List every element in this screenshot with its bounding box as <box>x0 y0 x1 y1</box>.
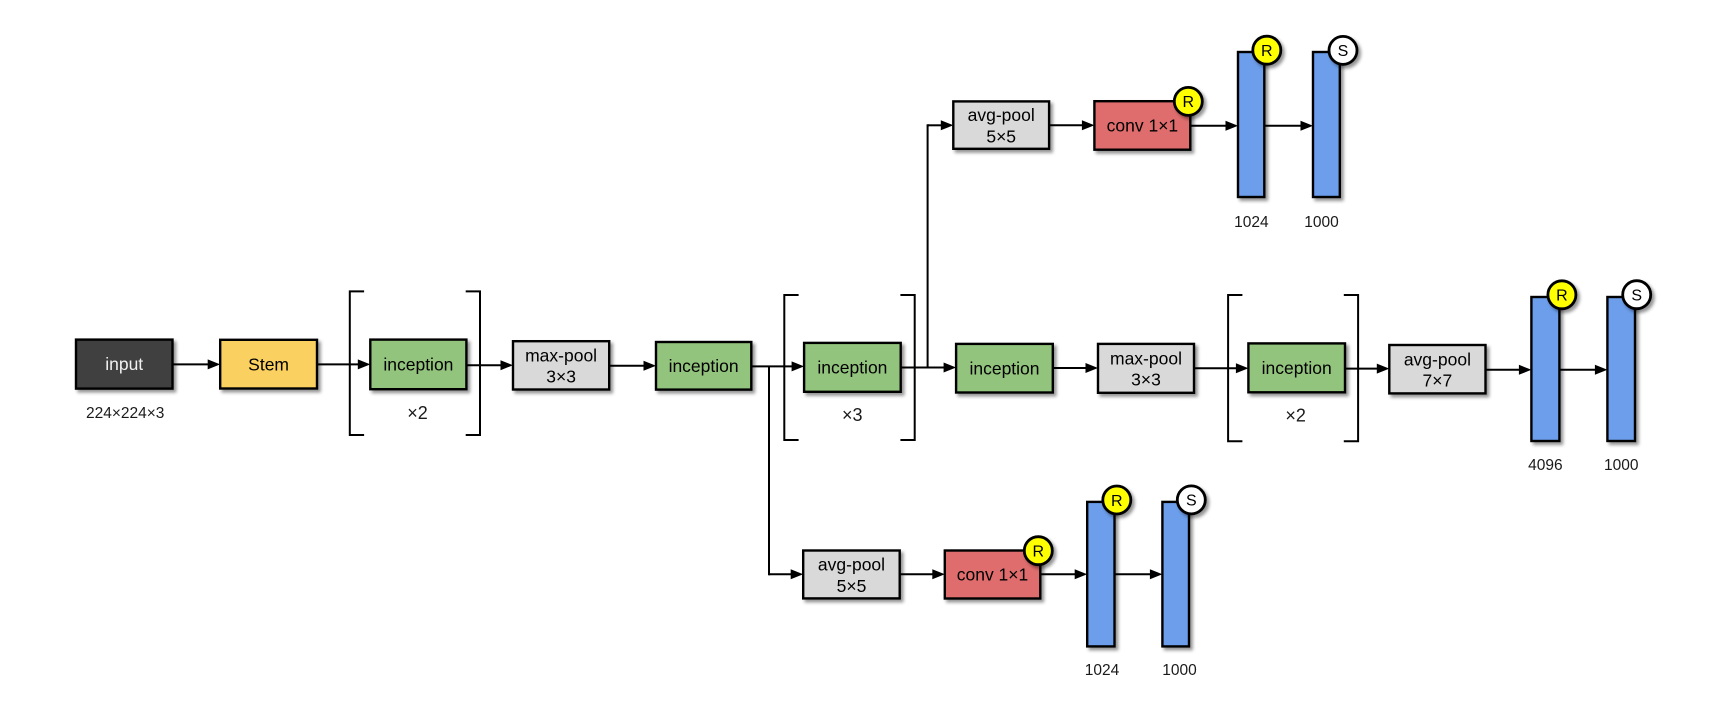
svg-text:3×3: 3×3 <box>1131 370 1161 390</box>
bar fc 1000 top <box>1313 52 1340 197</box>
wire inception5→avg-pool7 <box>1345 364 1389 374</box>
box max-pool 3x3 (2) <box>1098 344 1194 393</box>
svg-text:S: S <box>1631 288 1642 305</box>
svg-text:S: S <box>1186 493 1197 510</box>
svg-text:224×224×3: 224×224×3 <box>86 405 164 422</box>
wire inception1→max-pool1 <box>466 360 513 370</box>
bar fc 1024 bottom <box>1087 502 1114 647</box>
box inception 1 <box>370 340 466 390</box>
svg-text:3×3: 3×3 <box>546 367 576 387</box>
wire inception4→max-pool2 <box>1053 363 1098 373</box>
wire avg-pool7→fc4096 <box>1486 365 1532 375</box>
wire conv→fc1024 bottom <box>1040 569 1087 579</box>
wire corner bottom branch <box>768 573 770 575</box>
box avg-pool 7x7 <box>1389 345 1485 393</box>
svg-text:1000: 1000 <box>1304 214 1339 231</box>
wire max-pool1→inception2 <box>609 361 656 371</box>
wire inception3→inception4 <box>901 363 956 373</box>
svg-text:×3: ×3 <box>842 405 863 425</box>
svg-text:R: R <box>1183 94 1195 111</box>
wire conv→fc1024 top <box>1190 121 1238 131</box>
wire riser to top branch <box>927 125 929 367</box>
box avg-pool 5x5 top <box>953 101 1049 148</box>
svg-text:conv 1×1: conv 1×1 <box>957 565 1029 585</box>
svg-text:inception: inception <box>817 357 887 377</box>
bar fc 1000 main <box>1607 297 1635 441</box>
wire Stem→inception1 <box>317 359 370 369</box>
svg-text:max-pool: max-pool <box>525 345 597 365</box>
svg-text:4096: 4096 <box>1528 457 1562 474</box>
wire input→Stem <box>173 359 221 369</box>
svg-text:avg-pool: avg-pool <box>1404 349 1471 369</box>
svg-text:R: R <box>1111 493 1123 510</box>
Softmax badge fc1000 bottom <box>1177 486 1205 514</box>
svg-text:R: R <box>1556 288 1568 305</box>
wire inception2→inception3 <box>751 361 804 371</box>
ReLU badge conv top <box>1174 87 1202 115</box>
svg-text:1024: 1024 <box>1085 662 1120 679</box>
Softmax badge fc1000 top <box>1329 36 1357 64</box>
svg-text:1000: 1000 <box>1604 457 1639 474</box>
svg-text:1024: 1024 <box>1234 214 1269 231</box>
wire fc1024→fc1000 bottom <box>1115 569 1163 579</box>
wire fc4096→fc1000 <box>1559 365 1607 375</box>
svg-text:inception: inception <box>1262 358 1332 378</box>
bar fc 4096 main <box>1531 297 1559 441</box>
svg-text:S: S <box>1338 43 1349 60</box>
svg-text:conv 1×1: conv 1×1 <box>1107 116 1179 136</box>
box input <box>76 340 173 389</box>
box inception 5 <box>1248 343 1345 392</box>
svg-text:inception: inception <box>383 355 453 375</box>
svg-text:1000: 1000 <box>1162 662 1197 679</box>
svg-text:5×5: 5×5 <box>986 126 1016 146</box>
box inception 2 <box>656 342 751 390</box>
box max-pool 3x3 (1) <box>513 341 609 389</box>
wire avg-pool5→conv top <box>1049 120 1094 130</box>
box inception 4 <box>956 344 1053 393</box>
ReLU badge fc4096 main <box>1548 281 1576 309</box>
ReLU badge fc1024 top <box>1253 36 1281 64</box>
ReLU badge conv bottom <box>1024 537 1052 565</box>
wire branch-bottom→avg-pool5 bottom <box>769 569 803 579</box>
svg-text:avg-pool: avg-pool <box>818 555 885 575</box>
svg-text:inception: inception <box>669 356 739 376</box>
svg-text:×2: ×2 <box>1285 405 1306 425</box>
box inception 3 <box>804 343 901 392</box>
bracket ×2 group 1 <box>350 291 480 435</box>
svg-text:5×5: 5×5 <box>837 576 867 596</box>
ReLU badge fc1024 bottom <box>1103 486 1131 514</box>
svg-text:input: input <box>105 354 143 374</box>
box conv 1x1 bottom <box>945 551 1041 599</box>
svg-text:Stem: Stem <box>248 354 289 374</box>
svg-text:R: R <box>1033 544 1045 561</box>
wire max-pool2→inception5 <box>1194 363 1248 373</box>
svg-text:×2: ×2 <box>407 403 428 423</box>
svg-text:max-pool: max-pool <box>1110 348 1182 368</box>
bracket ×3 group 2 <box>784 295 914 440</box>
box avg-pool 5x5 bottom <box>803 551 900 599</box>
wire riser to bottom branch <box>768 366 770 574</box>
Softmax badge fc1000 main <box>1623 281 1651 309</box>
bracket ×2 group 3 <box>1228 295 1358 441</box>
bar fc 1000 bottom <box>1162 502 1189 647</box>
wire fc1024→fc1000 top <box>1264 121 1313 131</box>
box Stem <box>220 340 317 389</box>
svg-text:avg-pool: avg-pool <box>968 105 1035 125</box>
wire avg-pool5→conv bottom <box>900 569 945 579</box>
box conv 1x1 top <box>1094 101 1190 150</box>
wire branch-top→avg-pool5 top <box>928 120 954 130</box>
svg-text:inception: inception <box>969 358 1039 378</box>
svg-text:R: R <box>1261 43 1273 60</box>
svg-text:7×7: 7×7 <box>1423 371 1453 391</box>
wire corner top branch <box>927 124 929 126</box>
bar fc 1024 top <box>1238 52 1264 197</box>
